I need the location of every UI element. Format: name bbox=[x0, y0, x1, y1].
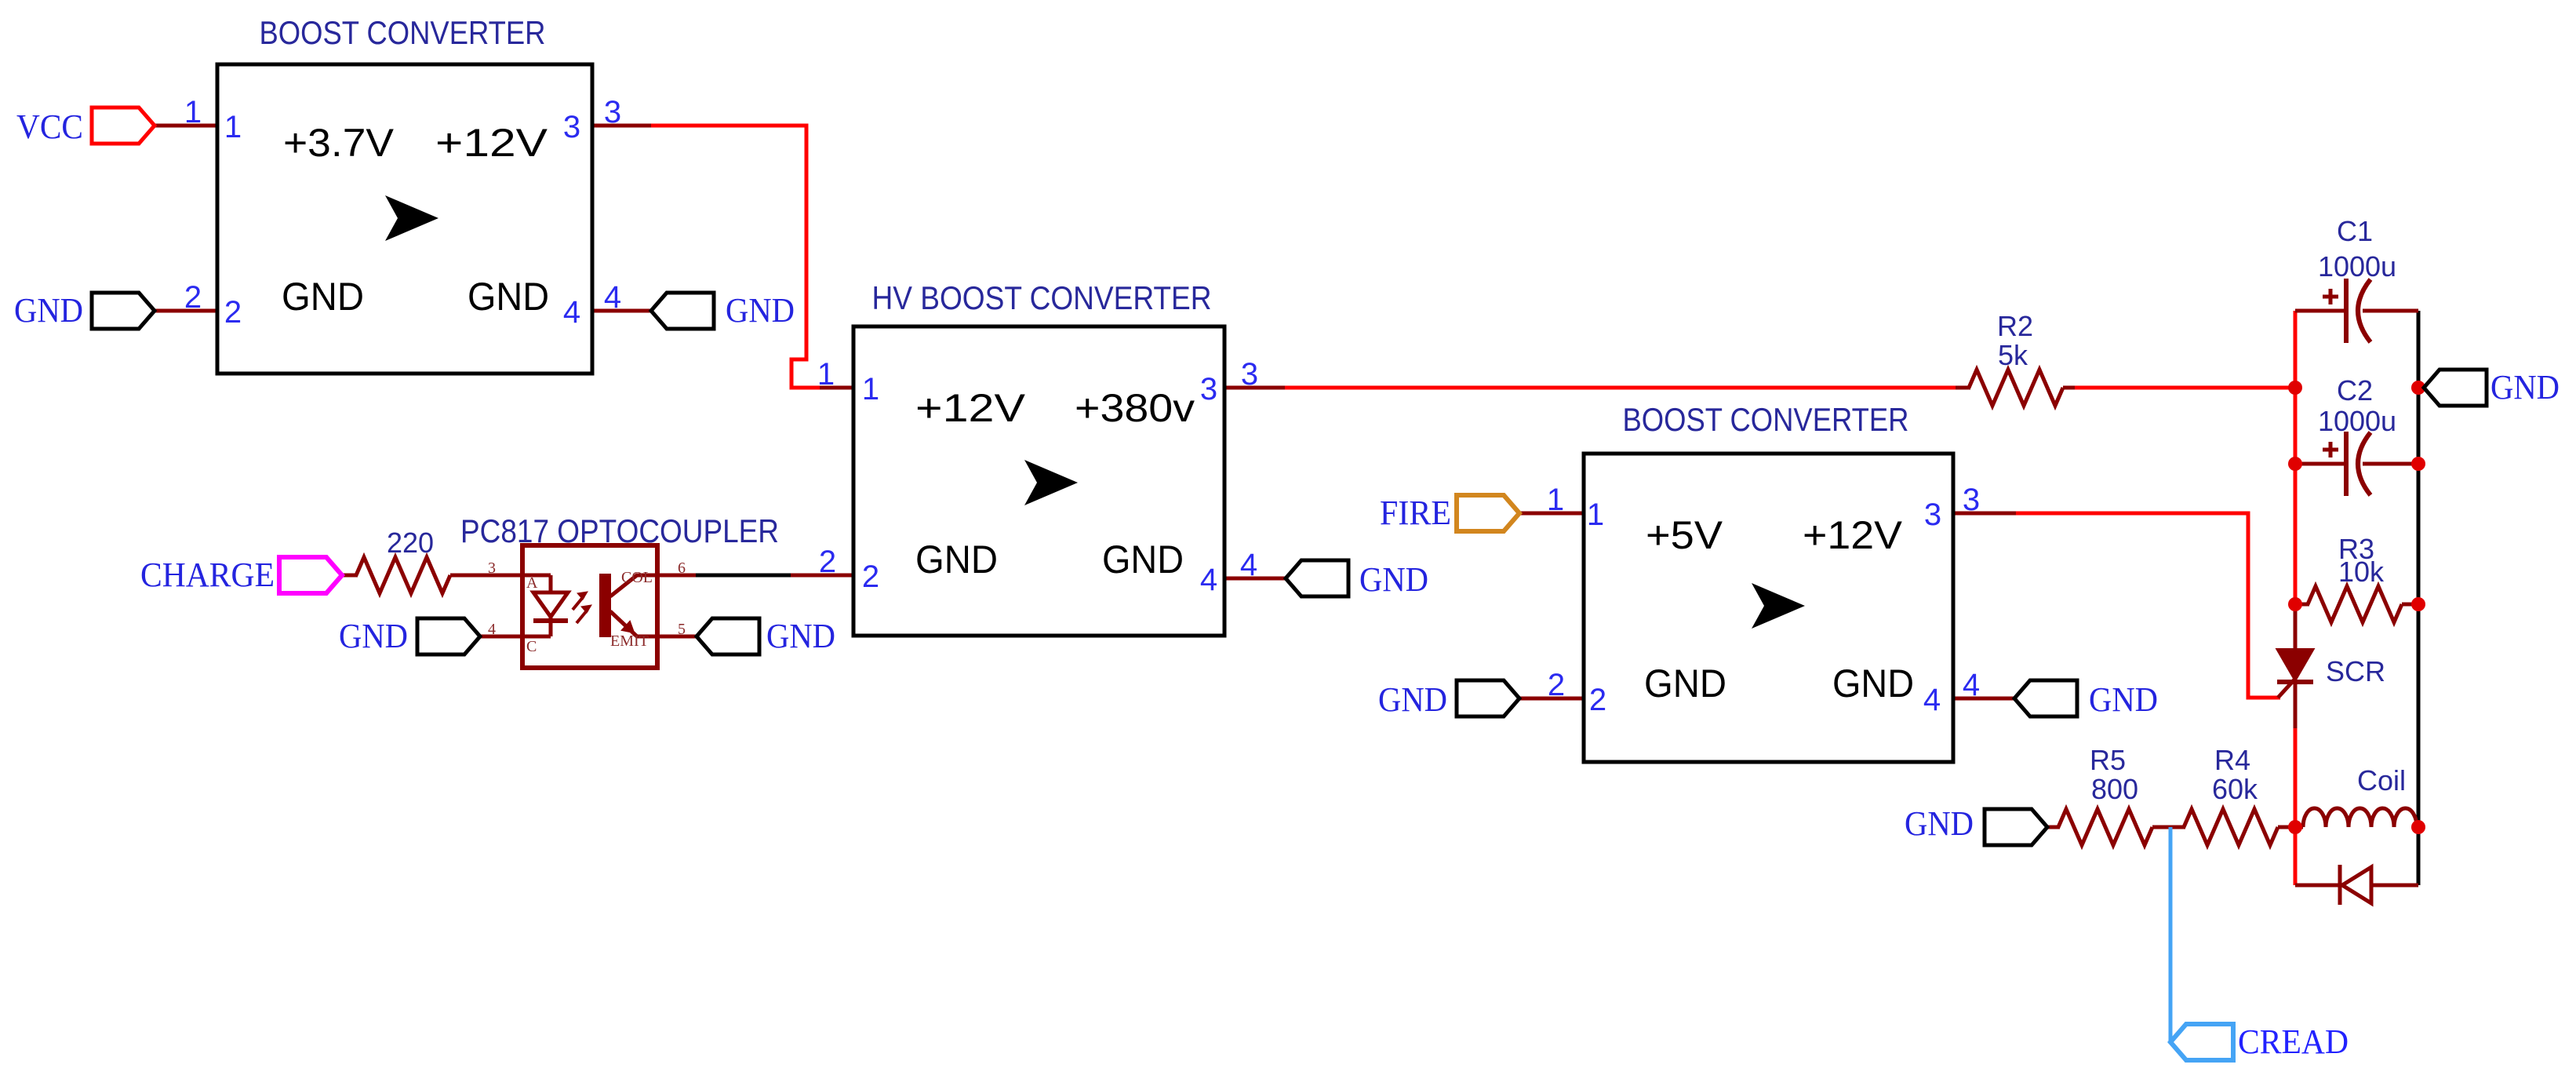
svg-text:3: 3 bbox=[488, 560, 496, 577]
svg-text:EMIT: EMIT bbox=[610, 632, 649, 650]
svg-text:2: 2 bbox=[184, 280, 202, 315]
svg-text:GND: GND bbox=[726, 291, 795, 330]
svg-text:GND: GND bbox=[915, 538, 998, 581]
svg-text:GND: GND bbox=[468, 275, 549, 319]
svg-text:GND: GND bbox=[766, 617, 835, 655]
svg-text:3: 3 bbox=[563, 110, 580, 144]
svg-text:+12V: +12V bbox=[915, 386, 1026, 430]
svg-text:CREAD: CREAD bbox=[2238, 1022, 2349, 1061]
svg-text:VCC: VCC bbox=[16, 108, 83, 146]
svg-text:4: 4 bbox=[563, 295, 580, 330]
svg-text:2: 2 bbox=[224, 295, 242, 330]
svg-text:GND: GND bbox=[282, 275, 364, 319]
svg-text:GND: GND bbox=[1905, 804, 1974, 843]
svg-text:5: 5 bbox=[678, 621, 686, 638]
svg-text:10k: 10k bbox=[2338, 556, 2385, 588]
svg-text:1: 1 bbox=[184, 95, 202, 129]
svg-text:GND: GND bbox=[1102, 538, 1184, 581]
svg-text:+12V: +12V bbox=[1803, 513, 1903, 557]
svg-text:220: 220 bbox=[387, 527, 434, 559]
svg-text:4: 4 bbox=[1923, 683, 1941, 717]
svg-text:GND: GND bbox=[14, 291, 83, 330]
svg-text:4: 4 bbox=[488, 621, 496, 638]
svg-text:4: 4 bbox=[1240, 548, 1257, 582]
svg-text:R5: R5 bbox=[2090, 744, 2126, 776]
svg-text:+3.7V: +3.7V bbox=[283, 121, 395, 165]
svg-text:SCR: SCR bbox=[2326, 655, 2385, 687]
svg-text:60k: 60k bbox=[2212, 773, 2258, 805]
svg-text:GND: GND bbox=[1378, 680, 1447, 719]
svg-text:2: 2 bbox=[1548, 668, 1565, 702]
svg-text:COL: COL bbox=[621, 569, 653, 586]
svg-text:+380v: +380v bbox=[1075, 386, 1195, 430]
svg-text:Coil: Coil bbox=[2357, 764, 2406, 796]
svg-text:3: 3 bbox=[1241, 357, 1258, 392]
svg-text:FIRE: FIRE bbox=[1380, 494, 1451, 532]
svg-text:BOOST CONVERTER: BOOST CONVERTER bbox=[260, 14, 546, 51]
svg-text:R4: R4 bbox=[2214, 744, 2250, 776]
svg-text:GND: GND bbox=[1832, 662, 1914, 705]
svg-text:1000u: 1000u bbox=[2318, 405, 2396, 437]
svg-text:4: 4 bbox=[1963, 668, 1980, 702]
svg-text:R2: R2 bbox=[1997, 310, 2033, 342]
svg-text:C: C bbox=[526, 638, 537, 655]
svg-text:4: 4 bbox=[604, 280, 621, 315]
svg-text:1: 1 bbox=[817, 357, 835, 392]
svg-text:C1: C1 bbox=[2337, 215, 2373, 247]
svg-text:800: 800 bbox=[2091, 773, 2138, 805]
svg-text:2: 2 bbox=[1589, 683, 1606, 717]
svg-text:A: A bbox=[526, 574, 538, 592]
svg-text:C2: C2 bbox=[2337, 374, 2373, 406]
svg-text:BOOST CONVERTER: BOOST CONVERTER bbox=[1623, 401, 1909, 438]
svg-text:GND: GND bbox=[2490, 368, 2560, 406]
svg-text:PC817 OPTOCOUPLER: PC817 OPTOCOUPLER bbox=[460, 512, 779, 549]
svg-text:+12V: +12V bbox=[435, 121, 548, 165]
svg-text:CHARGE: CHARGE bbox=[140, 556, 275, 594]
svg-text:5k: 5k bbox=[1998, 339, 2028, 371]
svg-text:HV BOOST CONVERTER: HV BOOST CONVERTER bbox=[872, 279, 1212, 316]
svg-text:GND: GND bbox=[1359, 560, 1428, 599]
svg-text:+5V: +5V bbox=[1646, 513, 1723, 557]
svg-text:1: 1 bbox=[1587, 498, 1604, 532]
svg-text:GND: GND bbox=[339, 617, 408, 655]
svg-text:2: 2 bbox=[819, 545, 836, 579]
svg-text:1: 1 bbox=[224, 110, 242, 144]
svg-text:2: 2 bbox=[862, 560, 879, 594]
svg-text:1: 1 bbox=[862, 372, 879, 406]
svg-text:3: 3 bbox=[1924, 498, 1941, 532]
svg-text:1000u: 1000u bbox=[2318, 250, 2396, 283]
svg-text:1: 1 bbox=[1547, 483, 1564, 517]
svg-text:3: 3 bbox=[604, 95, 621, 129]
svg-text:GND: GND bbox=[1644, 662, 1726, 705]
svg-text:4: 4 bbox=[1200, 563, 1217, 597]
svg-text:GND: GND bbox=[2089, 680, 2158, 719]
svg-text:6: 6 bbox=[678, 560, 686, 577]
svg-text:3: 3 bbox=[1963, 483, 1980, 517]
svg-text:3: 3 bbox=[1200, 372, 1217, 406]
